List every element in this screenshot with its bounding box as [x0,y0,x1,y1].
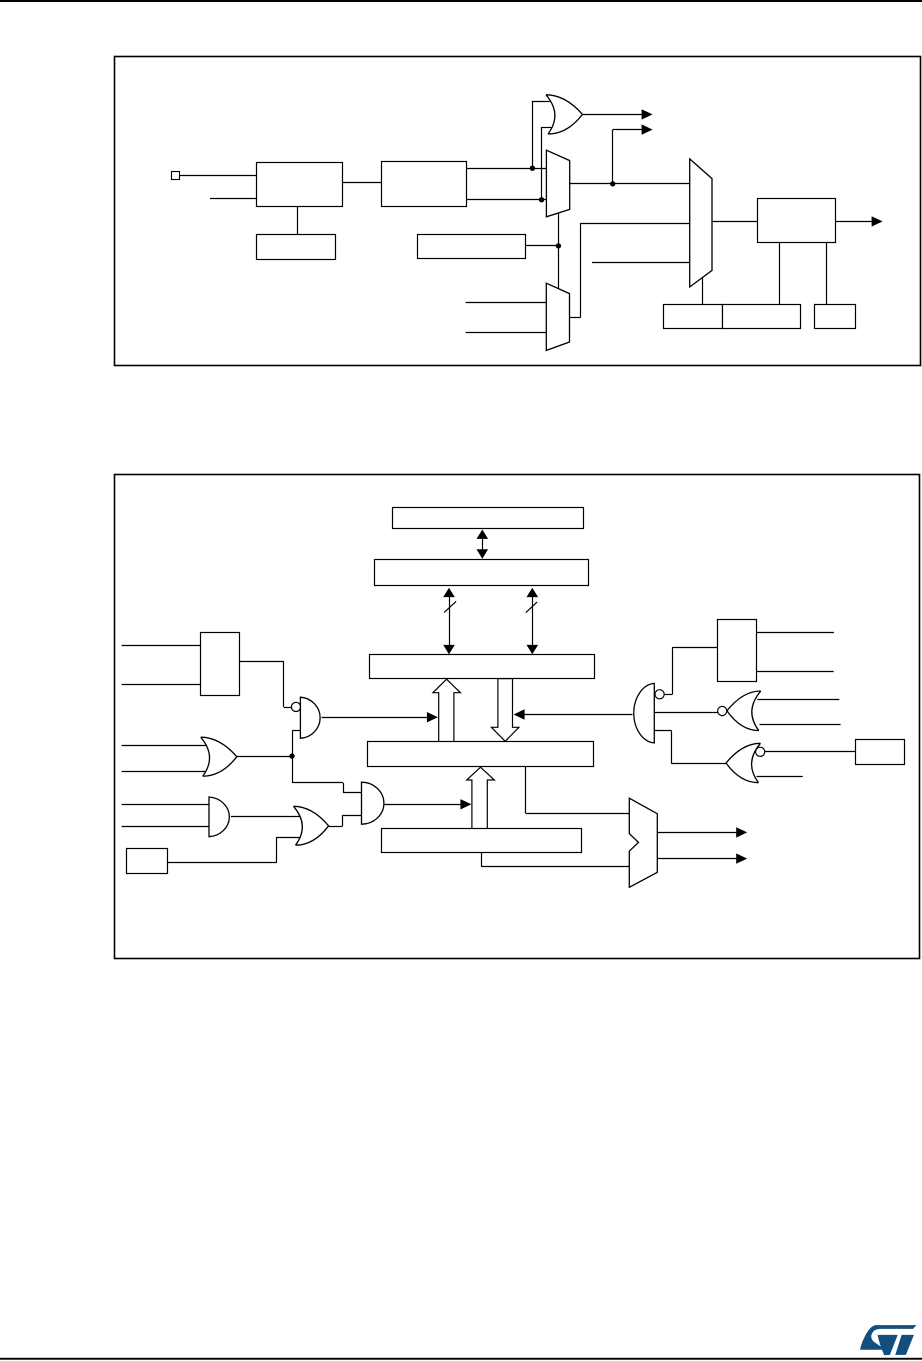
bubble G7 output inverter [718,706,727,715]
block U4 edge selector [418,235,526,259]
wire input stub to polarity block [210,198,256,200]
header rule (top of page) [0,0,922,2]
or-gate G2 [201,737,237,776]
frame: Figure clock/trigger controller diagram border [115,57,921,366]
wire ETR to polarity block [179,175,256,177]
frame: Figure interrupt/register diagram border [115,475,920,959]
node C junction [610,181,615,186]
ST Microelectronics logo [860,1325,916,1355]
wire G8 inverted input from Q2 box [765,751,855,753]
nor-gate G7 (facing left) [727,691,761,731]
block R2 register interface [375,560,589,586]
and-gate G3 [209,797,229,837]
block U2 input filter [382,162,467,207]
wire MUX3 select down to register box [702,278,704,305]
wire MUX4 output 2 [657,858,736,860]
wire G8 input 2 stub [757,776,803,778]
wire U2 out A to MUX1 [467,168,547,170]
block U1 polarity/edge detector [257,163,343,207]
node D junction (U4 tap) [556,243,561,248]
wire MUX2 input 2 [466,332,547,334]
block R5 shift register (bottom) [382,829,582,853]
double-arrow left bus (8-bit) [449,597,451,646]
block U5 counter clock block [758,199,836,243]
wire G4 output to G5 bottom input [329,826,343,828]
block U3 prescaler (below U1) [257,235,336,260]
mux MUX3 (large trapezoid) [690,159,712,287]
nand-gate G6 (mirrored AND facing left) [634,683,655,743]
wire G4 lower input from L2 box [276,837,299,839]
wire G7 input 1 [757,699,839,701]
wire MUX4 output 1 [657,832,736,834]
arrowhead MUX4 output 1 [736,827,747,837]
and-gate G5 [362,782,384,824]
wire G5 output to up-arrow 2 [384,804,461,806]
block R4 status register [368,742,594,767]
wire R4 down to MUX4 input 1 [525,767,527,814]
or-gate OR1 [546,95,583,134]
wire G7 input 2 [760,724,841,726]
arrowhead output 2 (to TRGI) [642,124,653,134]
bubble G8 inverted input [756,747,765,756]
hollow arrow down (control to status) [491,679,519,742]
wire G6 inverted input from Q1 [664,694,672,696]
node A junction [530,166,535,171]
double-arrow right bus (8-bit) [532,597,534,646]
wire OR G2 input 1 [122,745,206,747]
wire G6 output to down-arrow [524,714,632,716]
wire AND G3 input 2 [122,826,209,828]
wire U1 to U2 [342,182,381,184]
block Q1 control box (top right) [718,620,757,682]
wire node A up to OR1 input 1 [532,102,534,168]
double-arrow data bus <-> register interface [482,538,484,551]
wire G6 bottom input from G8 output [654,730,671,732]
wire L1 out to G1 inverted input [239,661,284,663]
wire AND G3 input 1 [122,804,209,806]
mux MUX4 (trapezoid with notch) [629,798,657,887]
wire stub input to MUX3 [592,262,690,264]
node B junction [539,197,544,202]
mux MUX1 (trapezoid) [546,150,569,217]
slash bus-width mark right [526,602,537,613]
wire node B up to OR1 input 2 [541,128,543,200]
bubble G6 inverted input [655,690,664,699]
wire MUX1 output to MUX3 [570,183,690,185]
block R3 control register [370,655,595,679]
mux MUX2 (trapezoid) [546,283,569,350]
wire G1 lower input from node E [292,730,300,732]
node E junction [289,753,294,758]
wire U5 output [835,221,871,223]
hollow arrow up (shift to status) [467,767,495,829]
wire node E down to G5 top input [292,756,294,783]
wire G2 output to node E [237,756,292,758]
wire input 2 to L1 [122,684,201,686]
wire MUX2 input 1 [466,302,547,304]
register box C [815,305,856,329]
block L2 small box (bottom left) [127,849,168,874]
wire G3 output to G4 [231,816,300,818]
register box A (SMCR) [664,305,723,329]
arrowhead OR1 output (ETRF) [642,109,653,119]
hollow arrow up (status to control) [433,679,461,742]
wire MUX2 output up to MUX3 [570,317,581,319]
bubble G1 input inverter [291,702,300,711]
arrowhead G1 output [427,712,438,722]
nor-gate G8 (facing left) [726,743,761,782]
block R1 data bus box (top) [393,508,584,529]
wire U5 to register box B [779,243,781,305]
wire input 1 to L1 [122,645,201,647]
arrowhead G5 output [460,799,471,809]
wire node C branch up to output arrow 2 [612,130,614,184]
block L1 control logic box [201,633,240,696]
wire Q1 output 1 [756,632,834,634]
wire R5 down to MUX4 input 2 [481,852,483,867]
wire U1 to U3 [297,207,299,235]
wire OR1 output [583,114,642,116]
wire U2 out B to MUX1 [467,199,547,201]
and-gate G1 [300,697,320,738]
arrowhead MUX4 output 2 [736,853,747,863]
slash bus-width mark left [444,601,456,612]
wire Q1 output 2 [756,671,834,673]
wire OR G2 input 2 [122,771,206,773]
wire U5 to register box C [826,243,828,305]
footer rule (bottom of page) [0,1358,922,1360]
wire G1 output to up-arrow [322,717,428,719]
block Q2 small box (right) [856,740,905,765]
input pin square (ETR) [172,172,180,180]
register box B [723,305,801,329]
arrowhead G6 output (points left) [514,709,525,719]
or-gate G4 [294,806,329,845]
wire MUX1 control down to MUX2 [558,213,560,288]
wire U4 to node D [526,245,559,247]
wire G6 mid input from G7 output [654,712,717,714]
wire MUX3 output to U5 [712,221,757,223]
arrowhead U5 output (CK_PSC) [872,216,883,226]
